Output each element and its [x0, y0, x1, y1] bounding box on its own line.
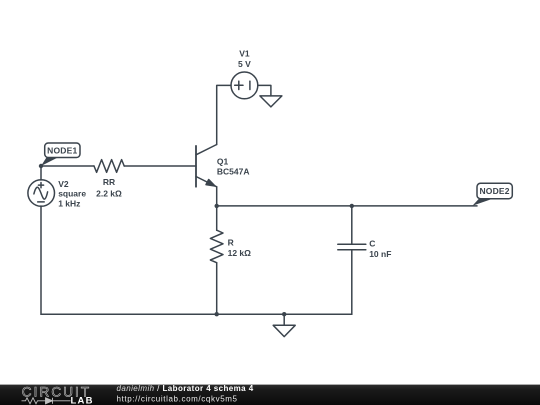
svg-text:2.2 kΩ: 2.2 kΩ [96, 188, 122, 198]
voltage source V2 [28, 180, 55, 207]
svg-text:NODE1: NODE1 [47, 146, 77, 156]
CircuitLab logo squiggle [22, 398, 71, 404]
svg-text:NODE2: NODE2 [479, 186, 509, 196]
svg-text:12 kΩ: 12 kΩ [228, 248, 252, 258]
node junction dot emitter [215, 204, 219, 208]
svg-text:1 kHz: 1 kHz [58, 199, 80, 209]
ground (top) [260, 96, 282, 107]
node junction dot R bottom [215, 312, 219, 316]
resistor RR [94, 160, 124, 173]
svg-text:danielmih / Laborator 4 schema: danielmih / Laborator 4 schema 4 [117, 384, 254, 393]
wire collector up [217, 85, 231, 144]
wire R to rail [216, 263, 218, 315]
ground (bottom) [273, 325, 295, 336]
svg-text:C: C [369, 239, 375, 249]
node junction dot C top [350, 204, 354, 208]
svg-text:V1: V1 [239, 49, 250, 59]
svg-text:R: R [228, 238, 234, 248]
wire V2 bottom [40, 206, 42, 314]
svg-text:10 nF: 10 nF [369, 249, 391, 259]
svg-text:V2: V2 [58, 179, 69, 189]
wire C branch [351, 206, 353, 244]
wire ground stub [283, 314, 285, 325]
svg-text:5 V: 5 V [238, 59, 251, 69]
node junction dot ground rail [282, 312, 286, 316]
node junction dot NODE1 [39, 164, 43, 168]
node NODE1 flag [41, 143, 80, 166]
svg-text:BC547A: BC547A [217, 166, 250, 176]
resistor R [210, 230, 223, 263]
wire RR to base [124, 165, 196, 167]
svg-text:LAB: LAB [71, 396, 94, 405]
voltage source V1 [231, 72, 258, 99]
svg-text:square: square [58, 189, 86, 199]
svg-text:RR: RR [103, 177, 115, 187]
wire bottom rail [41, 313, 352, 315]
svg-text:http://circuitlab.com/cqkv5m5: http://circuitlab.com/cqkv5m5 [117, 395, 238, 404]
wire V2 top [40, 166, 42, 180]
capacitor C [338, 244, 366, 250]
wire emitter down [216, 187, 218, 230]
wire C to rail [351, 250, 353, 315]
node NODE2 flag [472, 183, 512, 206]
svg-text:Q1: Q1 [217, 156, 229, 166]
wire node1 to RR [41, 165, 94, 167]
transistor Q1 [196, 145, 217, 187]
wire emitter node horizontal [217, 205, 477, 207]
wire V1 to ground [258, 85, 271, 96]
